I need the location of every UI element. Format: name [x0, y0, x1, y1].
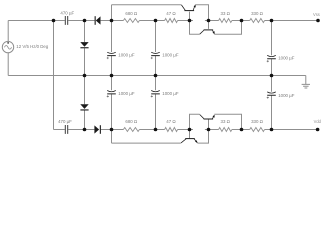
svg-text:33 Ω: 33 Ω: [221, 11, 231, 16]
svg-text:12 V/5 Hz/0 Deg: 12 V/5 Hz/0 Deg: [16, 44, 48, 49]
svg-text:33 Ω: 33 Ω: [221, 119, 231, 124]
svg-text:680 Ω: 680 Ω: [125, 11, 138, 16]
svg-text:1000 µF: 1000 µF: [162, 52, 179, 57]
svg-text:330 Ω: 330 Ω: [251, 11, 264, 16]
svg-text:47 Ω: 47 Ω: [166, 119, 176, 124]
svg-text:330 Ω: 330 Ω: [251, 119, 264, 124]
svg-text:470 µF: 470 µF: [58, 119, 72, 124]
svg-text:1000 µF: 1000 µF: [162, 91, 179, 96]
svg-text:1000 µF: 1000 µF: [118, 52, 135, 57]
svg-text:1000 µF: 1000 µF: [278, 56, 295, 61]
svg-text:680 Ω: 680 Ω: [125, 119, 138, 124]
svg-text:47 Ω: 47 Ω: [166, 11, 176, 16]
svg-text:Vdd: Vdd: [314, 119, 322, 124]
svg-text:1000 µF: 1000 µF: [118, 91, 135, 96]
svg-text:Vss: Vss: [313, 12, 320, 17]
svg-text:1000 µF: 1000 µF: [278, 93, 295, 98]
svg-text:470 µF: 470 µF: [60, 10, 74, 15]
